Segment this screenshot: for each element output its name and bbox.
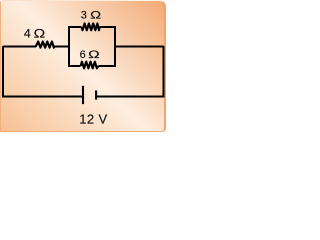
svg-text:4: 4 (24, 26, 31, 40)
svg-text:3: 3 (81, 10, 87, 22)
svg-text:6: 6 (80, 49, 86, 61)
svg-text:Ω: Ω (90, 10, 101, 22)
svg-text:Ω: Ω (88, 49, 100, 61)
svg-text:12 V: 12 V (79, 112, 107, 127)
svg-text:Ω: Ω (34, 26, 46, 40)
